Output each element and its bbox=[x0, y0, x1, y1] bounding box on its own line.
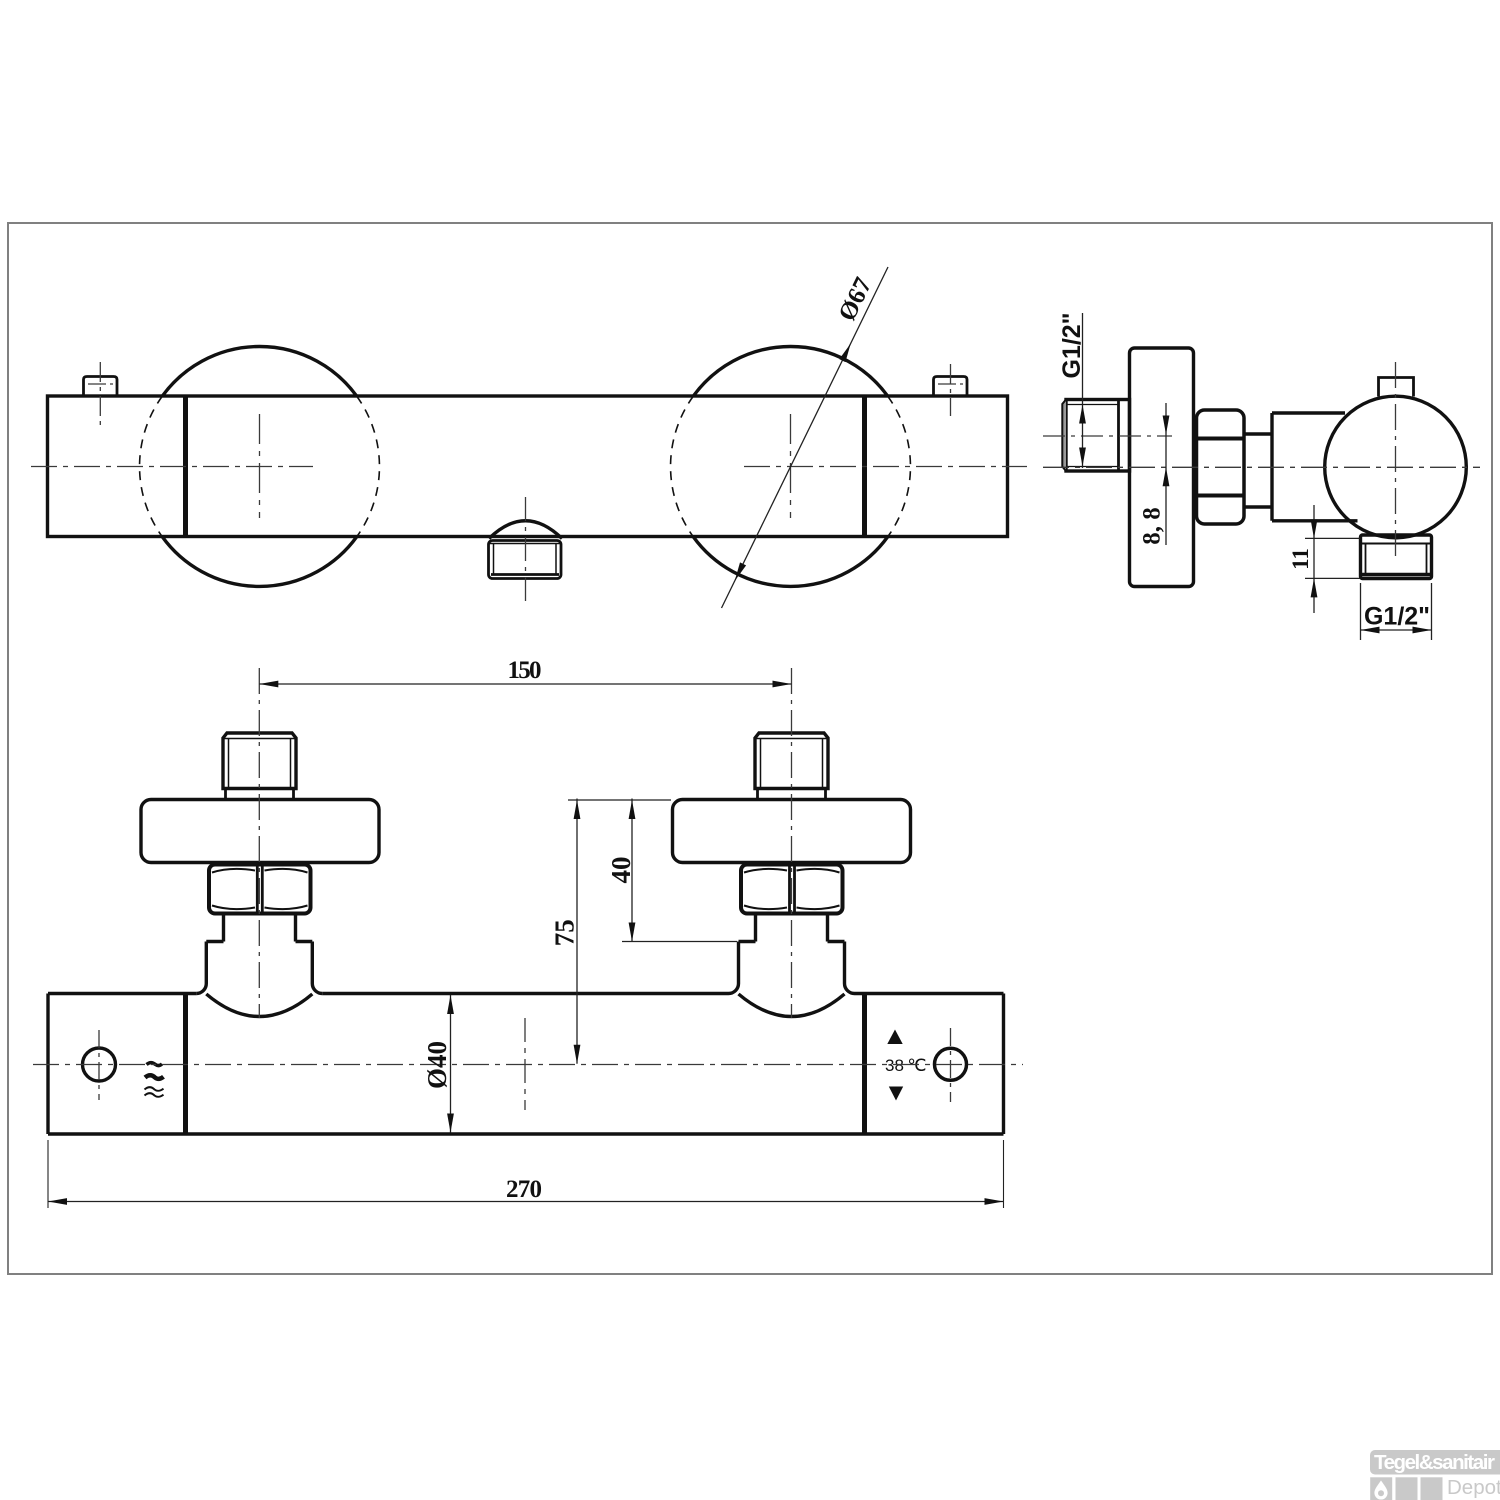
left knob vertical centerline bbox=[259, 414, 261, 518]
right inlet: neck bbox=[754, 914, 757, 942]
left tab (top view) bbox=[84, 377, 118, 397]
svg-text:Ø40: Ø40 bbox=[422, 1041, 452, 1089]
neck between nut and body (side view) bbox=[1244, 432, 1272, 435]
inlet thread axis centerline (side view) bbox=[1043, 435, 1172, 437]
right mounting hole bbox=[935, 1048, 967, 1080]
dimension 8,8 (side view) bbox=[1163, 403, 1170, 545]
svg-text:8, 8: 8, 8 bbox=[1139, 507, 1166, 545]
svg-text:75: 75 bbox=[550, 919, 580, 946]
hex nut (side view) bbox=[1197, 410, 1245, 524]
right inlet: wall flange bbox=[673, 800, 911, 863]
svg-text:38 ℃: 38 ℃ bbox=[885, 1056, 926, 1075]
bar outline (front view) bbox=[48, 992, 196, 995]
left inlet: thread lower band bbox=[224, 789, 227, 800]
right tab (top view) bbox=[934, 377, 968, 397]
bar middle vertical center mark (front view) bbox=[524, 1018, 526, 1110]
left knob circle hidden arcs (dashed) bbox=[140, 396, 163, 537]
male thread (side view) bbox=[1066, 400, 1130, 472]
dimension Ø40 bbox=[447, 995, 454, 1133]
bottom outlet (side view) bbox=[1361, 535, 1432, 579]
right inlet: thread block bbox=[755, 733, 828, 789]
svg-text:G1/2": G1/2" bbox=[1058, 312, 1086, 378]
wall flange (side view) bbox=[1130, 348, 1194, 587]
left tab centerline bbox=[99, 362, 101, 430]
left mounting hole bbox=[83, 1048, 116, 1081]
dimension 270 bbox=[48, 1140, 1004, 1208]
main horizontal centerline left segment (top view) bbox=[31, 466, 313, 468]
left inlet: dome arc bbox=[206, 994, 312, 1017]
right knob circle solid arcs (top view) bbox=[693, 347, 887, 396]
outlet dome (top view) bbox=[489, 521, 562, 539]
centerlines (top view) bbox=[31, 362, 1027, 606]
right block separator (front view) bbox=[862, 994, 867, 1135]
left hole vertical centerline bbox=[98, 1030, 100, 1100]
watermark squares bbox=[1370, 1477, 1392, 1500]
main body (side view) bbox=[1272, 411, 1345, 414]
right end separator (thick line, top view) bbox=[862, 396, 867, 537]
thread end cap (chamfer) bbox=[1062, 400, 1066, 472]
bar body (top view) bbox=[48, 396, 1008, 537]
left inlet: thread block bbox=[223, 733, 296, 789]
right inlet: thread lower band bbox=[756, 789, 759, 800]
centerlines (front view) bbox=[33, 668, 1023, 1110]
main horizontal centerline (front view) bbox=[33, 1064, 1023, 1066]
left inlet vertical centerline bbox=[258, 668, 260, 1018]
main horizontal centerline right segment (top view) bbox=[744, 466, 1027, 468]
watermark drop icon bbox=[1374, 1481, 1387, 1500]
knob circle (side view) bbox=[1325, 396, 1467, 538]
up triangle bbox=[887, 1030, 902, 1045]
left inlet: neck bbox=[222, 914, 225, 942]
svg-text:Tegel&sanitair: Tegel&sanitair bbox=[1374, 1451, 1495, 1474]
svg-text:150: 150 bbox=[508, 657, 542, 684]
outlet vertical centerline (top view) bbox=[525, 497, 527, 606]
left block separator (front view) bbox=[183, 994, 188, 1135]
right hole vertical centerline bbox=[950, 1028, 952, 1102]
right inlet vertical centerline bbox=[791, 668, 793, 1018]
hot water icon (left block) bbox=[147, 1063, 163, 1066]
outlet body (top view) bbox=[489, 541, 562, 579]
right knob vertical centerline bbox=[790, 414, 792, 518]
centerlines (side view) bbox=[1043, 362, 1480, 560]
dimension G1/2" (top, side view) bbox=[1079, 313, 1086, 468]
svg-text:Depot: Depot bbox=[1447, 1476, 1500, 1499]
dimension 11 (side view) bbox=[1305, 505, 1360, 613]
temperature marks (right block) bbox=[887, 1030, 903, 1101]
dimension G1/2" (bottom, side view) bbox=[1361, 583, 1432, 640]
knob top tab (side view) bbox=[1379, 378, 1414, 397]
svg-text:270: 270 bbox=[506, 1176, 542, 1203]
right inlet: hex nut bbox=[741, 865, 843, 914]
svg-text:G1/2": G1/2" bbox=[1364, 603, 1430, 631]
dimension 75 bbox=[568, 799, 671, 1064]
right tab centerline bbox=[950, 364, 952, 416]
knob vertical centerline (side view) bbox=[1395, 362, 1397, 560]
down triangle bbox=[889, 1087, 903, 1101]
left knob circle solid arcs (top view) bbox=[162, 347, 356, 396]
dimension 40 bbox=[622, 799, 737, 942]
border frame bbox=[8, 223, 1492, 1274]
svg-text:40: 40 bbox=[606, 857, 636, 884]
svg-text:11: 11 bbox=[1288, 548, 1313, 570]
left inlet: transition to body bbox=[206, 940, 223, 943]
dimension 150 bbox=[259, 681, 791, 688]
watermark banner bbox=[1370, 1450, 1500, 1475]
left inlet: wall flange bbox=[141, 800, 379, 863]
right knob circle hidden arcs (dashed) bbox=[671, 396, 694, 537]
body axis centerline (side view) bbox=[1043, 466, 1480, 468]
dimension Ø67 leader bbox=[722, 267, 889, 608]
right inlet: dome arc bbox=[739, 994, 845, 1017]
left inlet: hex nut bbox=[209, 865, 311, 914]
left end separator (thick line, top view) bbox=[183, 396, 188, 537]
right inlet: transition to body bbox=[739, 940, 756, 943]
